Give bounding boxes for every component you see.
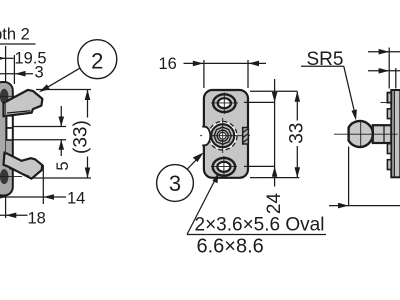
top oval centerline vertical xyxy=(223,93,225,115)
top arm underside edge line xyxy=(7,111,31,113)
stud body internal line xyxy=(393,90,395,177)
right edge hatch block xyxy=(243,128,249,145)
bottom stud dimension arrow xyxy=(338,203,349,209)
extension line over body x5.6 xyxy=(5,100,7,155)
left notch curve stroke xyxy=(202,127,210,146)
balloon 3 leader arrow xyxy=(193,153,204,163)
boss octagon xyxy=(214,127,231,144)
oval note leader xyxy=(187,177,217,235)
dimension 5 arrow upper xyxy=(58,117,64,127)
svg-text:2×3.6×5.6 Oval: 2×3.6×5.6 Oval xyxy=(195,215,325,236)
balloon 2 leader arrow xyxy=(39,84,50,92)
svg-text:SR5: SR5 xyxy=(307,49,344,70)
balloon 3 leader xyxy=(187,155,201,169)
stud body tooth 4 xyxy=(387,160,391,170)
bottom oval centerline horizontal xyxy=(211,166,237,168)
right hatch lines xyxy=(243,129,248,143)
ball extension line xyxy=(348,147,350,206)
dimension 18 arrow xyxy=(6,213,17,219)
balloon 2 circle xyxy=(78,40,117,79)
oval note leader arrow xyxy=(212,173,218,184)
extension line plate right xyxy=(247,60,249,88)
wire extension line x14.4 xyxy=(13,55,15,84)
stud body tooth 2 xyxy=(387,109,391,119)
body of catch side view xyxy=(0,82,13,196)
dimension 5 line lower xyxy=(60,140,62,156)
top oval centerline horizontal xyxy=(211,102,238,104)
boss center hole xyxy=(219,132,226,139)
svg-text:5: 5 xyxy=(54,161,72,170)
stud body tooth 3 xyxy=(387,144,391,154)
wire extension line left mounting face xyxy=(5,46,7,218)
dimension 3 arrow xyxy=(15,71,26,77)
dimension 3 line xyxy=(0,73,33,75)
svg-text:16: 16 xyxy=(159,55,177,73)
stud centerline horizontal xyxy=(334,133,398,135)
dimension 18 line xyxy=(0,214,28,216)
dimension (33) line xyxy=(87,90,89,118)
svg-text:24: 24 xyxy=(264,193,285,215)
svg-text:18: 18 xyxy=(28,210,46,228)
dimension 16 line left xyxy=(184,62,204,64)
dimension 16 line right tail xyxy=(248,62,266,64)
dimension 24 arrow top xyxy=(272,92,278,102)
label Depth 2 leader underline xyxy=(0,43,36,45)
dimension 14 line xyxy=(0,196,66,198)
bottom spring arm (side view) xyxy=(4,152,43,178)
bottom oval counterbore xyxy=(213,158,235,176)
hole centerline top (side view) xyxy=(0,95,22,97)
stud dimension arrow B line xyxy=(368,70,400,72)
extension line plate top right xyxy=(250,90,297,92)
dimension 33 arrow bottom xyxy=(295,167,301,177)
extension line hole bottom center xyxy=(244,165,275,167)
svg-text:6.6×8.6: 6.6×8.6 xyxy=(197,236,264,258)
stud dimension arrow B head xyxy=(379,68,390,74)
boss dashed circle xyxy=(208,121,237,150)
balloon 3 circle xyxy=(157,165,194,202)
extension line plate bottom right xyxy=(250,177,299,179)
wire stub top left xyxy=(0,89,5,91)
svg-text:3: 3 xyxy=(169,171,181,196)
dimension 14 arrow left xyxy=(0,194,6,200)
stud dimension arrow A line xyxy=(368,51,400,53)
top oval slot xyxy=(218,98,231,108)
SR5 leader horizontal xyxy=(301,65,344,67)
dimension 33 arrow top xyxy=(295,91,301,101)
stud extension line V1 xyxy=(388,48,390,89)
dimension 33 line xyxy=(296,91,298,120)
svg-text:3: 3 xyxy=(35,64,44,82)
dimension 19.5 arrow xyxy=(0,56,6,62)
dimension 5 arrow lower xyxy=(58,140,64,150)
boss centerline vertical xyxy=(222,118,224,153)
ball centerline vertical xyxy=(360,121,362,147)
balloon 2 leader xyxy=(41,68,81,91)
dimension 14 arrow right xyxy=(43,194,54,200)
bottom arm underside edge line xyxy=(9,168,30,176)
svg-text:(33): (33) xyxy=(71,120,92,154)
bottom oval slot xyxy=(217,162,230,172)
dimension (33) arrow top xyxy=(85,90,91,101)
ball SR5 xyxy=(349,121,373,147)
boss inner circle xyxy=(217,130,228,141)
top spring arm (side view) xyxy=(4,90,43,116)
hole centerline bottom (side view) xyxy=(0,176,22,178)
extension line arm bottom for (33) xyxy=(31,177,91,179)
dimension 16 arrow left xyxy=(193,61,204,67)
slot window upper (side view) xyxy=(7,116,13,128)
dimension 19.5 line xyxy=(0,57,14,59)
slot window lower / tab (side view) xyxy=(7,128,13,140)
dimension 24 line xyxy=(274,79,276,187)
SR5 leader arrow xyxy=(352,109,357,120)
svg-text:Depth 2: Depth 2 xyxy=(0,26,30,44)
boss relief halo xyxy=(209,122,237,150)
plate front view xyxy=(204,90,248,178)
extension line tab bottom xyxy=(13,139,66,141)
extension line tab top xyxy=(13,126,66,128)
mounting hole bottom (side view) xyxy=(0,169,9,184)
mounting hole top (side view) xyxy=(0,89,9,104)
stud extension line V2 xyxy=(395,68,397,89)
stud body flange line xyxy=(381,102,392,104)
stud body main xyxy=(391,90,400,177)
dimension 16 line middle xyxy=(204,62,248,64)
dimension 5 line upper xyxy=(60,106,62,127)
stud neck end line xyxy=(383,125,385,143)
dimension (33) arrow bottom xyxy=(85,168,91,179)
dimension 24 arrow bottom xyxy=(272,166,278,176)
left notch xyxy=(202,127,210,146)
bottom stud dimension line xyxy=(329,205,400,207)
top oval counterbore xyxy=(213,94,235,112)
extension line hole top center xyxy=(244,101,275,103)
dimension 16 arrow right xyxy=(248,61,259,67)
svg-text:14: 14 xyxy=(67,190,85,208)
boss centerline horizontal xyxy=(200,135,250,137)
oval note underline xyxy=(187,234,326,236)
extension line arm top for (33) xyxy=(36,89,91,91)
stud neck xyxy=(373,125,392,143)
svg-text:33: 33 xyxy=(286,123,307,144)
stud body tooth 1 xyxy=(387,93,391,103)
extension line arm tip for 14 xyxy=(42,165,44,204)
bottom oval centerline vertical xyxy=(223,156,225,178)
extension line plate left xyxy=(203,60,205,88)
SR5 leader diagonal xyxy=(344,66,355,112)
stud dimension arrow A head xyxy=(379,49,390,55)
svg-text:2: 2 xyxy=(91,48,103,73)
boss knurled ring xyxy=(211,124,234,147)
